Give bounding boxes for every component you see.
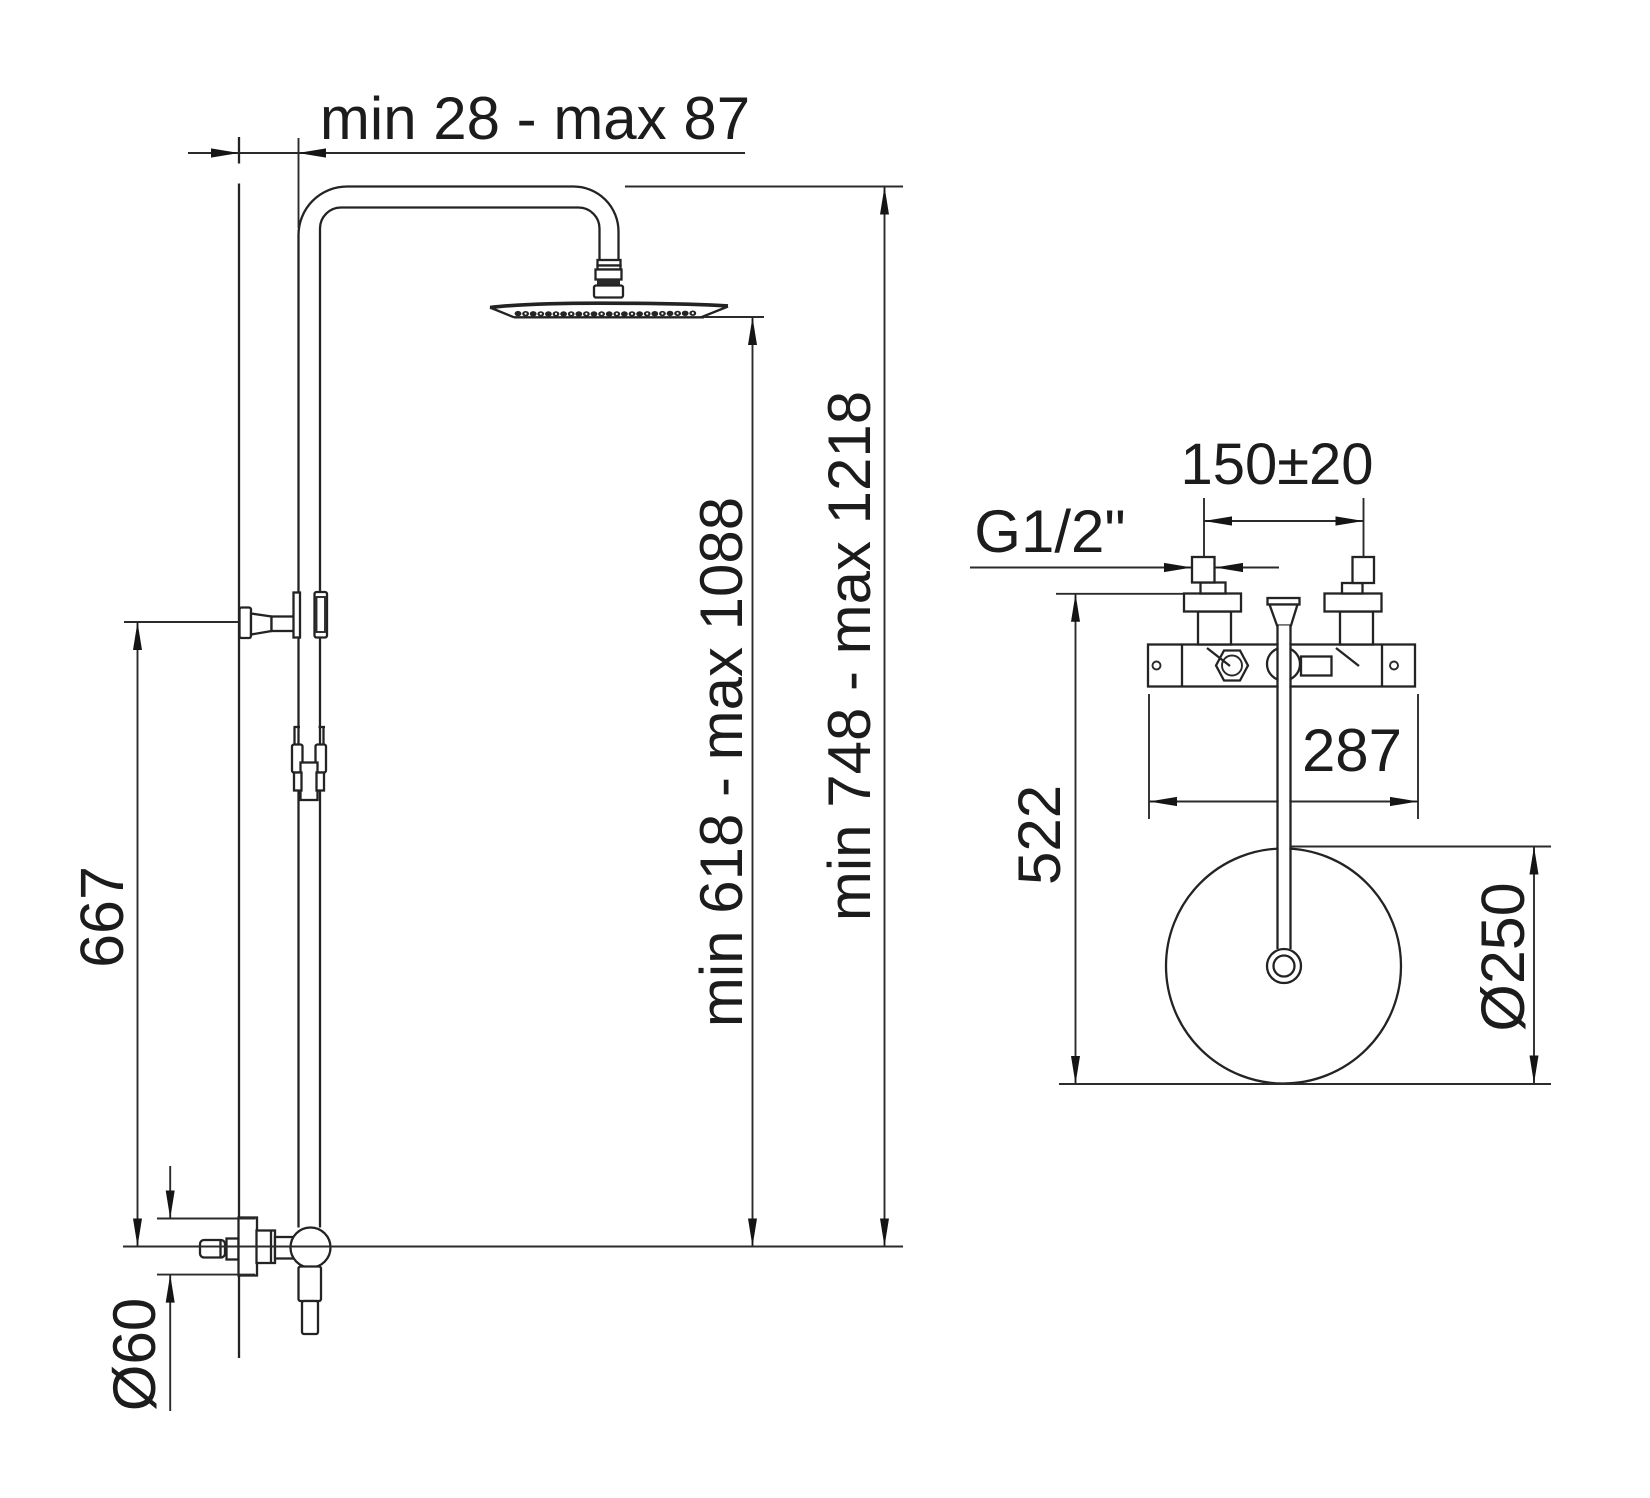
hub inner <box>1274 956 1295 977</box>
svg-text:min 618 - max 1088: min 618 - max 1088 <box>688 497 755 1027</box>
slider sleeve ticks <box>294 727 326 745</box>
wall line <box>238 137 240 1358</box>
diverter right rect <box>1301 657 1332 676</box>
valve escutcheon <box>239 1218 258 1276</box>
center outlet cone <box>1270 605 1298 626</box>
bracket pipe clamp right <box>315 592 328 638</box>
shower arm connector nut <box>594 260 623 298</box>
svg-text:667: 667 <box>68 866 136 968</box>
dim 150+-20 line <box>1204 520 1364 522</box>
dim min 748 - max 1218 line <box>884 187 886 1247</box>
slider right lower block <box>317 773 325 791</box>
screw hole left <box>1153 662 1161 670</box>
shower head disc <box>490 303 728 317</box>
svg-text:522: 522 <box>1006 785 1073 885</box>
dim 522 top ext line <box>1056 593 1185 595</box>
svg-text:150±20: 150±20 <box>1180 432 1373 497</box>
screw hole right <box>1390 662 1398 670</box>
left tower nipple <box>1192 557 1215 583</box>
shower head nozzle dots <box>515 311 697 317</box>
dim 522 line <box>1075 594 1077 1084</box>
ext line bracket level <box>124 621 239 623</box>
left tower flange <box>1184 594 1241 612</box>
slider right block <box>316 745 327 773</box>
valve ball circle <box>291 1228 331 1268</box>
down tube <box>1278 626 1291 950</box>
slider center block <box>301 763 318 801</box>
svg-text:min 28 - max 87: min 28 - max 87 <box>320 85 750 152</box>
left tower neck <box>1198 612 1231 645</box>
dim O60 line lower <box>169 1275 171 1411</box>
valve body right <box>275 1237 298 1259</box>
dim 287 line <box>1149 801 1418 803</box>
ext line circle bottom tangent <box>1059 1083 1551 1085</box>
bracket pipe plate left <box>294 593 301 638</box>
valve handle upper <box>299 1267 322 1302</box>
valve handle lower <box>302 1301 318 1334</box>
arrow left at pipe <box>298 148 326 157</box>
dim 667 line <box>137 622 139 1247</box>
valve inlet collar <box>227 1239 239 1260</box>
riser pipe inner line <box>320 208 600 1228</box>
svg-text:G1/2": G1/2" <box>974 498 1125 565</box>
dim min 618 - max 1088 line <box>752 317 754 1247</box>
riser pipe outer line <box>298 187 618 1228</box>
pipe extension line top <box>298 138 300 228</box>
G1/2 leader line <box>970 567 1279 569</box>
big circle overhead shower front view <box>1166 849 1401 1084</box>
dim min 28 - max 87 line <box>188 152 745 154</box>
svg-text:min 748 - max 1218: min 748 - max 1218 <box>816 391 883 921</box>
arrow right at wall <box>211 148 239 157</box>
slider left lower block <box>294 773 302 791</box>
diverter ring <box>1267 648 1300 681</box>
valve centerline <box>123 1246 903 1248</box>
center outlet cap <box>1268 598 1300 605</box>
valve body left <box>257 1231 276 1264</box>
right tower flange <box>1325 594 1382 612</box>
right tower neck <box>1340 612 1373 645</box>
wall bracket flange <box>240 608 252 639</box>
valve bar front <box>1148 645 1415 687</box>
dim O60 line upper <box>169 1166 171 1219</box>
ext line top arm level <box>625 186 903 188</box>
wall bracket cone <box>251 614 272 635</box>
right tower base <box>1342 583 1363 594</box>
diverter hexagon <box>1216 651 1248 681</box>
dim 287 ext lines <box>1148 694 1150 819</box>
svg-text:287: 287 <box>1302 717 1402 784</box>
ext line head bottom <box>704 316 764 318</box>
left tower base <box>1201 583 1226 594</box>
svg-text:Ø250: Ø250 <box>1469 882 1537 1031</box>
svg-text:Ø60: Ø60 <box>101 1298 168 1411</box>
hub outer <box>1267 949 1301 983</box>
dim O60 ext lines <box>157 1218 256 1220</box>
dim 150+-20 ext lines <box>1203 498 1205 557</box>
chamfer marks <box>1207 648 1230 666</box>
right tower nipple <box>1353 557 1375 583</box>
ext line circle top tangent <box>1291 846 1551 848</box>
wall bracket arm <box>272 617 299 632</box>
slider left block <box>292 745 303 773</box>
valve inlet fitting <box>200 1240 225 1258</box>
dim O250 line <box>1533 847 1535 1084</box>
